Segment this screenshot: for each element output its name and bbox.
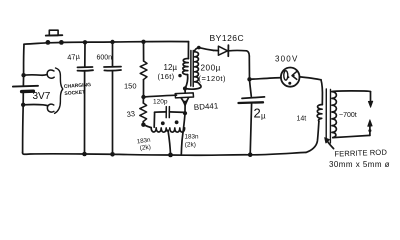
svg-text:120p: 120p bbox=[153, 99, 168, 106]
svg-text:30mm x 5mm ø: 30mm x 5mm ø bbox=[329, 160, 390, 169]
svg-text:183n: 183n bbox=[185, 134, 200, 141]
svg-text:BD441: BD441 bbox=[194, 101, 220, 112]
svg-text:33: 33 bbox=[126, 109, 135, 119]
svg-text:12µ: 12µ bbox=[164, 63, 178, 72]
svg-text:µ: µ bbox=[261, 112, 266, 121]
svg-text:CHARGING: CHARGING bbox=[64, 82, 92, 90]
svg-text:(2k): (2k) bbox=[139, 144, 151, 152]
svg-text:47µ: 47µ bbox=[67, 52, 81, 62]
svg-text:2: 2 bbox=[254, 106, 261, 121]
svg-text:~700t: ~700t bbox=[339, 112, 357, 119]
svg-text:(16t): (16t) bbox=[158, 72, 175, 81]
svg-text:150: 150 bbox=[124, 82, 137, 91]
svg-text:(=120t): (=120t) bbox=[199, 74, 226, 83]
svg-text:(2k): (2k) bbox=[185, 142, 196, 149]
svg-text:BY126C: BY126C bbox=[210, 33, 245, 43]
svg-text:3V7: 3V7 bbox=[33, 91, 51, 102]
svg-text:14t: 14t bbox=[297, 116, 307, 123]
svg-text:200µ: 200µ bbox=[201, 64, 221, 73]
svg-text:300V: 300V bbox=[275, 55, 298, 64]
svg-text:SOCKET: SOCKET bbox=[64, 90, 85, 97]
svg-text:FERRITE ROD: FERRITE ROD bbox=[334, 148, 387, 159]
svg-text:600n: 600n bbox=[97, 55, 113, 62]
